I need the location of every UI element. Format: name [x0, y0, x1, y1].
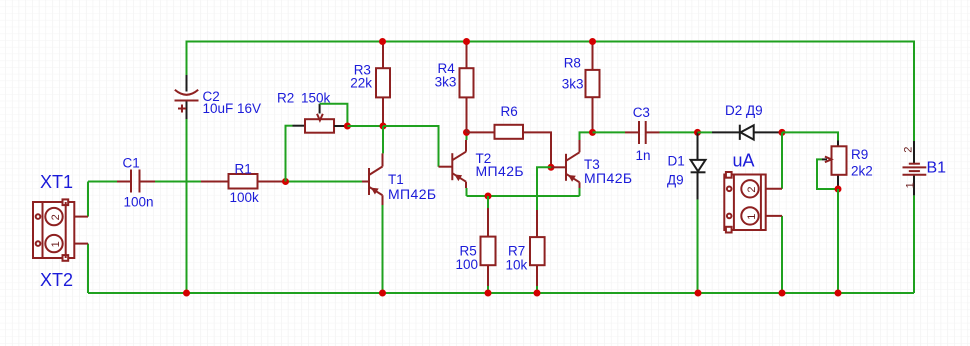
svg-text:1n: 1n [636, 148, 651, 163]
transistor T2 [452, 140, 524, 188]
svg-text:3k3: 3k3 [562, 77, 584, 92]
node D1 ground [695, 290, 702, 297]
wire meter pin1 to ground [766, 216, 782, 293]
terminal block XT1 XT2 [33, 172, 88, 290]
wire T3 base to R7 [537, 167, 551, 210]
svg-text:C1: C1 [123, 156, 140, 171]
potentiometer R9 [822, 141, 873, 190]
wire D2 junction to R9 [782, 132, 838, 140]
svg-text:C3: C3 [633, 105, 650, 120]
svg-text:R1: R1 [235, 162, 252, 177]
svg-text:100k: 100k [230, 190, 260, 205]
svg-text:XT2: XT2 [40, 270, 73, 290]
svg-text:10uF 16V: 10uF 16V [203, 101, 262, 116]
capacitor C3 [625, 105, 660, 163]
wire XT2 pin1 to ground rail [87, 244, 89, 293]
svg-text:XT1: XT1 [40, 172, 73, 192]
node C3-D1-D2 junction [694, 129, 701, 136]
svg-text:100n: 100n [124, 195, 154, 210]
wire bottom ground rail [88, 292, 914, 294]
node R3 top [379, 38, 386, 45]
node T1 emitter ground [379, 290, 386, 297]
resistor R7 [506, 210, 545, 293]
wire T1 emitter to ground [382, 205, 384, 293]
diode D2 [698, 103, 783, 140]
node R8 top [589, 38, 596, 45]
node R2 wiper junction [344, 123, 351, 130]
svg-text:R2: R2 [277, 91, 294, 106]
wire R2 wiper [320, 104, 348, 126]
resistor R5 [456, 196, 496, 293]
wire R2 to R3 junction [347, 125, 383, 127]
node C2 ground [183, 290, 190, 297]
node R1-R2-T1 base junction [282, 178, 289, 185]
node R9 bottom junction [835, 186, 842, 193]
wire T1 collector [382, 126, 385, 167]
node D2 right junction [779, 129, 786, 136]
wire R2 left leg [285, 126, 306, 182]
svg-text:B1: B1 [927, 160, 947, 177]
svg-text:2k2: 2k2 [851, 163, 873, 178]
svg-text:D2 Д9: D2 Д9 [725, 103, 763, 118]
svg-text:Д9: Д9 [667, 173, 684, 188]
transistor T1 [362, 167, 436, 206]
wire T2 emitter [466, 188, 468, 196]
svg-text:2: 2 [746, 186, 758, 192]
svg-text:2: 2 [902, 147, 914, 153]
resistor R4 [435, 42, 474, 133]
svg-text:МП42Б: МП42Б [584, 170, 632, 186]
wire T2 collector [466, 132, 468, 140]
svg-text:1: 1 [905, 182, 917, 188]
node T3 base junction [548, 164, 555, 171]
svg-text:МП42Б: МП42Б [388, 186, 436, 202]
svg-text:1: 1 [746, 214, 758, 220]
node R8 bottom / T3 collector [589, 129, 596, 136]
wire emitter bus [467, 195, 580, 197]
svg-text:3k3: 3k3 [435, 74, 457, 89]
transistor T3 [551, 140, 632, 188]
wire R9 wiper to bottom [817, 159, 838, 189]
svg-text:R8: R8 [564, 56, 581, 71]
node R5 ground [485, 290, 492, 297]
wire D1 to ground [697, 200, 699, 293]
wire C3 to D junction [660, 131, 698, 133]
svg-text:МП42Б: МП42Б [476, 163, 524, 179]
node meter ground [779, 290, 786, 297]
wire R8 to C3 [593, 131, 626, 133]
svg-text:22k: 22k [350, 76, 372, 91]
svg-text:1: 1 [50, 241, 62, 247]
meter uA terminal block [724, 151, 765, 233]
svg-text:100: 100 [456, 257, 479, 272]
node R4 top [463, 38, 470, 45]
svg-text:10k: 10k [506, 257, 528, 272]
wire C2 branch lower [186, 119, 188, 293]
resistor R6 [467, 104, 552, 167]
wire XT1 pin2 to C1 line [87, 182, 89, 217]
capacitor C1 [117, 156, 155, 210]
node R5 top [485, 193, 492, 200]
node R3 bottom / T1 collector [380, 123, 387, 130]
svg-text:T1: T1 [388, 172, 404, 187]
node R7 ground [534, 290, 541, 297]
svg-text:uA: uA [733, 151, 755, 171]
wire C1 input line [88, 181, 362, 183]
wire top power rail [187, 42, 915, 142]
wire R9 to ground [837, 189, 839, 293]
wire T3 emitter [579, 188, 581, 196]
resistor R1 [201, 162, 286, 206]
svg-text:R7: R7 [508, 244, 525, 259]
diode D1 [667, 132, 706, 199]
resistor R3 [350, 42, 390, 127]
svg-text:2: 2 [50, 214, 62, 220]
wire T1 collector to T2 base [383, 126, 452, 167]
svg-text:R6: R6 [501, 104, 518, 119]
wire meter pin2 [766, 132, 782, 188]
resistor R8 [562, 42, 600, 133]
svg-text:R9: R9 [851, 147, 868, 162]
wire T3 collector [580, 132, 593, 140]
svg-text:D1: D1 [668, 154, 685, 169]
capacitor C2 [175, 75, 262, 119]
potentiometer R2 [277, 91, 347, 133]
battery B1 [902, 141, 946, 195]
wire battery bottom [913, 195, 915, 293]
node R9 ground [835, 290, 842, 297]
node T2 collector / R4 / R6 [463, 129, 470, 136]
